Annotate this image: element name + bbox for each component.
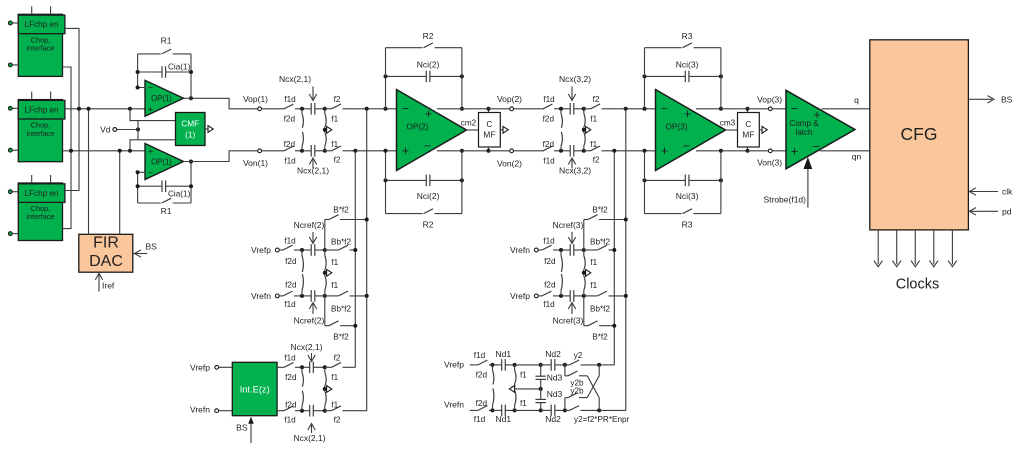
svg-text:−: − — [661, 102, 668, 116]
switch Bb*f2 bottom (ref net 2) — [325, 291, 367, 313]
switch f1 pair + CM node (ref net 2) — [323, 250, 339, 296]
clock ticks block 1 — [32, 6, 51, 14]
wire feedback loop bottom left (2) — [385, 151, 387, 214]
capacitor Ncx(2,1) top (Int.E net) — [300, 362, 327, 374]
switch f1d top (Nd net) — [474, 351, 493, 365]
label Vop(1) — [243, 94, 268, 104]
switch B*f2 bottom (ref net 2) — [325, 296, 356, 342]
svg-text:+: + — [402, 144, 409, 158]
wire q output — [822, 95, 870, 109]
svg-text:Nd2: Nd2 — [545, 349, 561, 359]
svg-text:Vrefp: Vrefp — [444, 359, 464, 369]
wire OP(1) bottom feedback right — [189, 160, 193, 204]
svg-text:+: + — [148, 105, 153, 115]
label Ncx + arrow bottom (stage3) — [559, 158, 591, 176]
switch y2b lower (cross) — [565, 365, 599, 411]
label Ncx(2,1) + arrow top (Int.E net) — [290, 342, 322, 362]
capacitor Nd1 bottom — [491, 405, 517, 424]
svg-text:Cia(1): Cia(1) — [168, 62, 191, 71]
svg-text:Nd1: Nd1 — [496, 414, 512, 424]
C MF output marker (stage 3) — [759, 126, 767, 133]
C MF connections (stage 2) — [487, 107, 491, 153]
capacitor Cia(1) bottom — [138, 180, 191, 198]
svg-text:q: q — [854, 95, 859, 105]
svg-text:f2d: f2d — [285, 257, 297, 266]
wire vertical right (ref to stage3 top) — [624, 109, 628, 411]
capacitor Ncx top (stage2) — [300, 103, 327, 115]
input terminals block 3 — [8, 190, 18, 236]
capacitor Ncref(3) top — [559, 244, 586, 256]
svg-text:Vrefp: Vrefp — [190, 362, 210, 372]
svg-text:OP(1): OP(1) — [151, 157, 172, 166]
svg-text:f1: f1 — [331, 140, 338, 149]
node Vrefn input (ref net 2) — [251, 291, 283, 301]
clock ticks block 2 — [32, 92, 51, 100]
svg-text:Cia(1): Cia(1) — [168, 189, 191, 198]
switch f1d top (stage2) — [284, 95, 302, 109]
svg-text:f1d: f1d — [284, 354, 296, 363]
svg-text:f1: f1 — [331, 114, 338, 123]
clk input arrow — [969, 186, 1013, 196]
CMF(1) output marker — [205, 126, 213, 133]
svg-text:(1): (1) — [185, 130, 195, 140]
wire Von(3) to comparator — [748, 149, 787, 153]
svg-text:Ncref(3): Ncref(3) — [553, 220, 584, 230]
node Vrefp input (Nd net) — [444, 359, 478, 369]
label Vop(2) — [497, 94, 522, 104]
svg-text:f1: f1 — [520, 371, 527, 380]
svg-text:Nci(2): Nci(2) — [417, 60, 440, 70]
svg-text:f2: f2 — [334, 156, 341, 165]
wire Von(2) to stage3 — [489, 149, 545, 153]
switch f1d top (Int.E net) — [277, 354, 302, 368]
svg-text:BS: BS — [1001, 94, 1013, 104]
label Clocks — [896, 277, 940, 293]
switch f1d bottom (stage3) — [543, 146, 561, 166]
svg-text:LFchp en: LFchp en — [24, 189, 59, 198]
capacitor Ncx bottom (stage3) — [559, 145, 586, 157]
svg-text:CFG: CFG — [901, 124, 938, 144]
svg-text:f1: f1 — [590, 258, 597, 267]
label Ncref(3) + arrow top — [553, 220, 584, 244]
switch f1 pair + CM node (stage2) — [323, 109, 339, 151]
svg-text:interface: interface — [27, 129, 55, 138]
svg-text:f2: f2 — [334, 354, 341, 363]
svg-text:B*f2: B*f2 — [333, 206, 349, 215]
switch f2d pair (ref net 2) — [285, 250, 303, 296]
wire feedback loop bottom right (3) — [719, 149, 723, 214]
CMF block C MF (stage 3) — [738, 113, 760, 148]
wire OP(1) bottom feedback left — [136, 170, 146, 203]
switch f1d bottom (ref net 2) — [283, 291, 302, 309]
svg-text:Vd: Vd — [100, 124, 111, 134]
wire bottom row to Nd2 (Nd net) — [515, 408, 543, 412]
wire OP(2) output bottom — [437, 150, 489, 152]
chop interface block 1 (LFchp en / Chop interface) — [18, 14, 65, 76]
wire qn output — [820, 151, 870, 162]
svg-text:Vop(2): Vop(2) — [497, 94, 522, 104]
node cm2 wire — [461, 119, 479, 130]
svg-text:Nd3: Nd3 — [547, 373, 563, 383]
switch f1d bottom (ref net 3) — [542, 291, 561, 309]
svg-text:Ncx(3,2): Ncx(3,2) — [559, 166, 591, 176]
op-amp OP(1) bottom — [145, 144, 184, 180]
node Vrefn input (ref net 3) — [510, 245, 542, 255]
svg-text:Vrefn: Vrefn — [190, 404, 210, 414]
switch B*f2 top (ref net 3) — [584, 206, 626, 250]
label Ncx + arrow top (stage3) — [559, 74, 591, 101]
chop interface block 2 (LFchp en / Chop interface) — [18, 100, 65, 162]
svg-text:MF: MF — [742, 130, 754, 140]
wire feedback loop top left (3) — [644, 48, 646, 109]
svg-text:f2: f2 — [334, 95, 341, 104]
svg-text:f1d: f1d — [284, 157, 296, 166]
capacitor Nd3 upper — [536, 365, 563, 389]
switch B*f2 top (ref net 2) — [325, 206, 367, 250]
capacitor Ncx bottom (stage2) — [300, 145, 327, 157]
svg-text:f2: f2 — [593, 95, 600, 104]
svg-text:Nci(3): Nci(3) — [676, 60, 699, 70]
svg-text:Nci(2): Nci(2) — [417, 191, 440, 201]
wire feedback loop top left (2) — [385, 48, 387, 109]
svg-text:f2d: f2d — [543, 114, 555, 123]
svg-text:f2d: f2d — [284, 114, 296, 123]
svg-text:Vrefn: Vrefn — [510, 245, 530, 255]
clock output arrows — [874, 230, 957, 267]
label Ncx(2,1) + arrow bottom (Int.E net) — [293, 424, 325, 443]
labels y2b — [570, 378, 584, 395]
svg-text:f2d: f2d — [284, 140, 296, 149]
svg-text:−: − — [402, 102, 409, 116]
svg-text:OP(3): OP(3) — [665, 122, 687, 132]
wire block3 bottom output to bottom rail — [63, 151, 72, 229]
svg-text:f2d: f2d — [544, 257, 556, 266]
switch R1 top — [138, 35, 191, 54]
node cm3 wire — [720, 119, 738, 130]
switch y2 bottom — [565, 406, 630, 424]
svg-text:Von(2): Von(2) — [497, 158, 522, 168]
FIR DAC block — [79, 234, 133, 272]
switch f2 bottom (stage3) — [584, 146, 611, 165]
svg-text:C: C — [486, 119, 492, 129]
label Ncref(2) + arrow bottom — [294, 303, 325, 326]
wire vertical left (ref to stage2 bottom) — [353, 151, 357, 367]
svg-text:f1d: f1d — [543, 95, 555, 104]
svg-text:−: − — [813, 139, 820, 153]
label Von(2) — [497, 158, 522, 168]
svg-text:f2d: f2d — [285, 280, 297, 289]
svg-text:−: − — [791, 102, 798, 116]
svg-text:f1d: f1d — [543, 300, 555, 309]
wire feedback loop top right (2) — [460, 48, 464, 111]
svg-text:f1d: f1d — [284, 95, 296, 104]
svg-text:+: + — [661, 144, 668, 158]
wire Vop(3) to comparator — [748, 107, 787, 111]
svg-text:Ncx(2,1): Ncx(2,1) — [293, 433, 325, 443]
wire Vop(2) to stage3 — [489, 107, 545, 111]
switch f2 top (Int.E net) — [325, 354, 356, 368]
node Vrefp input (ref net 3) — [510, 291, 542, 301]
wire OP(2) input bottom — [352, 149, 398, 153]
wire FIR DAC output to bottom rail — [119, 151, 121, 235]
BS output arrow — [968, 94, 1012, 104]
switch R3 bottom — [645, 209, 721, 230]
wire vertical left (ref to stage3 bottom) — [612, 151, 616, 365]
svg-text:−: − — [683, 139, 690, 153]
wire block3 top output to top rail — [65, 109, 79, 191]
svg-text:latch: latch — [796, 128, 813, 137]
svg-text:Von(3): Von(3) — [757, 158, 782, 168]
svg-text:−: − — [148, 168, 153, 178]
wire feedback loop bottom right (2) — [460, 149, 464, 214]
switch f2d pair (stage3) — [543, 109, 563, 151]
wire OP(3) input bottom — [611, 149, 657, 153]
switch f1 pair + CM node (stage3) — [582, 109, 598, 151]
capacitor Nd2 bottom — [541, 405, 567, 424]
svg-text:B*f2: B*f2 — [592, 206, 608, 215]
switch f1d bottom (Nd net) — [474, 406, 493, 424]
svg-text:+: + — [791, 144, 798, 158]
wire CMF(1) sense top — [130, 109, 176, 121]
svg-text:CMF: CMF — [181, 119, 199, 129]
switch f1 pair + CM node (ref net 3) — [582, 250, 598, 296]
CMF block CMF(1) — [176, 113, 206, 146]
svg-text:Bb*f2: Bb*f2 — [590, 304, 610, 313]
wire FIR DAC output to top rail — [88, 109, 90, 235]
wire feedback loop bottom left (3) — [644, 151, 646, 214]
node Vrefn input (Nd net) — [444, 399, 478, 410]
svg-text:B*f2: B*f2 — [333, 332, 349, 341]
svg-text:Ncx(2,1): Ncx(2,1) — [290, 342, 322, 352]
label Ncref(3) + arrow bottom — [553, 303, 584, 326]
svg-text:R1: R1 — [161, 35, 172, 45]
capacitor Nci(2) top — [384, 60, 464, 83]
svg-text:Ncref(2): Ncref(2) — [294, 315, 325, 325]
svg-text:+: + — [425, 107, 432, 121]
svg-text:interface: interface — [27, 212, 55, 221]
switch f2 bottom (Int.E net) — [325, 406, 367, 425]
op-amp OP(1) top — [145, 80, 184, 116]
svg-text:R2: R2 — [423, 31, 434, 41]
input terminals block 1 — [8, 21, 18, 67]
switch f2 top (stage2) — [325, 95, 352, 109]
svg-text:qn: qn — [852, 152, 862, 162]
switch f1d bottom (Int.E net) — [277, 406, 302, 425]
svg-text:f1d: f1d — [543, 157, 555, 166]
svg-text:Bb*f2: Bb*f2 — [331, 304, 351, 313]
switch f2 bottom (stage2) — [325, 146, 352, 165]
wire Vop(1) output — [184, 98, 285, 110]
Strobe(f1d) input arrow — [763, 157, 812, 208]
svg-text:f1d: f1d — [474, 351, 486, 360]
label Ncref(2) + arrow top — [294, 220, 325, 244]
svg-text:Vrefp: Vrefp — [510, 291, 530, 301]
svg-text:Comp &: Comp & — [790, 119, 820, 128]
wire block1 top output to top rail — [65, 28, 79, 108]
svg-text:cm2: cm2 — [461, 119, 477, 128]
svg-text:f1: f1 — [590, 281, 597, 290]
svg-text:f2d: f2d — [476, 371, 488, 380]
wire OP(3) output top — [696, 108, 748, 110]
label Von(3) — [757, 158, 782, 168]
svg-text:B*f2: B*f2 — [592, 332, 608, 341]
svg-text:Vrefn: Vrefn — [251, 291, 271, 301]
node Vrefp input (ref net 2) — [251, 245, 283, 255]
BS input arrow to Int.E(z) — [236, 417, 254, 443]
wire top row to Nd2 (Nd net) — [515, 363, 543, 367]
switch f1d top (ref net 3) — [542, 236, 561, 250]
switch f1d top (stage3) — [543, 95, 561, 109]
svg-text:Iref: Iref — [102, 281, 115, 291]
switch f1d top (ref net 2) — [283, 236, 302, 250]
capacitor Ncref(3) bottom — [559, 290, 586, 302]
svg-text:BS: BS — [146, 242, 158, 252]
clock ticks block 3 — [32, 175, 51, 183]
input terminals block 2 — [8, 106, 18, 152]
capacitor Nd3 lower — [536, 389, 563, 411]
svg-text:C: C — [745, 119, 751, 129]
switch R2 top — [386, 31, 462, 48]
wire OP(1) top feedback right — [189, 54, 193, 100]
wire feedback loop top right (3) — [719, 48, 723, 111]
svg-text:pd: pd — [1002, 206, 1012, 216]
svg-text:−: − — [148, 82, 153, 92]
svg-text:y2=f2*PR*Enpr: y2=f2*PR*Enpr — [574, 415, 630, 424]
label Von(1) — [243, 158, 268, 168]
svg-text:f2d: f2d — [544, 280, 556, 289]
wire Von(1) output — [184, 149, 285, 162]
svg-text:clk: clk — [1002, 186, 1013, 196]
wire OP(1) top feedback left — [136, 54, 146, 90]
C MF output marker (stage 2) — [500, 126, 508, 133]
svg-text:f2: f2 — [593, 156, 600, 165]
svg-text:Strobe(f1d): Strobe(f1d) — [763, 194, 806, 204]
svg-text:DAC: DAC — [89, 253, 123, 270]
BS input arrow to FIR DAC — [134, 242, 158, 258]
svg-text:R2: R2 — [423, 220, 434, 230]
svg-text:Ncref(3): Ncref(3) — [553, 315, 584, 325]
chop interface block 3 (LFchp en / Chop interface) — [18, 183, 65, 241]
wire block1 bottom output to bottom rail — [63, 67, 72, 151]
node Vrefn input (Int.E) — [190, 404, 232, 414]
switch Bb*f2 bottom (ref net 3) — [584, 291, 626, 313]
svg-text:R3: R3 — [682, 220, 693, 230]
svg-text:f1d: f1d — [474, 415, 486, 424]
svg-text:f2: f2 — [334, 415, 341, 424]
svg-text:Nci(3): Nci(3) — [676, 191, 699, 201]
svg-text:f1d: f1d — [543, 236, 555, 245]
capacitor Nd2 top — [541, 349, 567, 371]
svg-text:FIR: FIR — [93, 234, 119, 251]
capacitor Nci(3) top — [643, 60, 723, 83]
svg-text:Ncx(3,2): Ncx(3,2) — [559, 74, 591, 84]
switch R1 bottom — [138, 198, 191, 216]
wire Nd net top row to left vertical — [599, 364, 614, 366]
svg-text:R1: R1 — [161, 206, 172, 216]
svg-text:f2d: f2d — [285, 401, 297, 410]
capacitor Cia(1) top — [138, 62, 191, 78]
wire CMF(1) sense bottom — [130, 140, 176, 151]
wire bottom rail (Vin) — [63, 149, 146, 153]
svg-text:interface: interface — [27, 44, 55, 53]
comparator Comp & latch — [786, 90, 855, 169]
switch f2d pair (Int.E net) — [285, 367, 303, 410]
switch f1 pair + CM node (Int.E net) — [323, 367, 339, 410]
CMF block C MF (stage 2) — [479, 113, 501, 148]
svg-text:Ncx(2,1): Ncx(2,1) — [279, 74, 311, 84]
capacitor Nci(3) bottom — [643, 175, 723, 201]
svg-text:f1: f1 — [331, 401, 338, 410]
svg-text:f1: f1 — [331, 373, 338, 382]
switch Bb*f2 top (ref net 3) — [584, 237, 615, 250]
svg-text:LFchp en: LFchp en — [24, 20, 59, 29]
capacitor Ncref(2) top — [300, 244, 327, 256]
svg-text:Nd2: Nd2 — [545, 414, 561, 424]
svg-text:−: − — [424, 139, 431, 153]
svg-text:y2: y2 — [574, 351, 583, 360]
svg-text:Vrefp: Vrefp — [251, 245, 271, 255]
label Ncx + arrow top (stage2) — [279, 74, 317, 101]
switch Bb*f2 top (ref net 2) — [325, 237, 356, 250]
node Vrefp input (Int.E) — [190, 362, 232, 372]
switch f2 top (stage3) — [584, 95, 611, 109]
svg-text:R3: R3 — [682, 31, 693, 41]
svg-text:Bb*f2: Bb*f2 — [590, 237, 610, 246]
svg-text:Von(1): Von(1) — [243, 158, 268, 168]
wire OP(3) input top — [611, 107, 657, 111]
svg-text:f1d: f1d — [284, 300, 296, 309]
Int.E(z) block — [232, 362, 277, 415]
capacitor Ncref(2) bottom — [300, 290, 327, 302]
svg-text:f2d: f2d — [285, 373, 297, 382]
capacitor Nd1 top — [491, 349, 517, 371]
svg-text:Nd3: Nd3 — [547, 389, 563, 399]
wire vertical right (ref to stage2 top) — [365, 109, 369, 411]
wire OP(2) input top — [352, 107, 398, 111]
switch f2d pair (stage2) — [284, 109, 304, 151]
CFG block — [870, 40, 969, 230]
label Vop(3) — [757, 95, 782, 105]
svg-text:cm3: cm3 — [720, 119, 736, 128]
svg-text:f1: f1 — [331, 258, 338, 267]
svg-text:Vrefn: Vrefn — [444, 399, 464, 409]
svg-text:f1d: f1d — [284, 236, 296, 245]
CM rail + marker (Nd net) — [509, 386, 542, 393]
svg-text:f2d: f2d — [543, 140, 555, 149]
svg-text:BS: BS — [236, 422, 248, 432]
switch B*f2 bottom (ref net 3) — [584, 296, 615, 342]
wire top rail (Vip) — [65, 107, 146, 111]
svg-text:Vop(1): Vop(1) — [243, 94, 268, 104]
switch R2 bottom — [386, 209, 462, 230]
pd input arrow — [969, 206, 1011, 216]
switch f1 pair + CM node (Nd net) — [515, 365, 528, 411]
svg-text:Bb*f2: Bb*f2 — [331, 237, 351, 246]
wire OP(3) output bottom — [696, 150, 748, 152]
svg-text:OP(1): OP(1) — [151, 94, 172, 103]
capacitor Nci(2) bottom — [384, 175, 464, 201]
wire Nd net bottom row to right vertical — [599, 409, 626, 411]
svg-text:f2d: f2d — [476, 399, 488, 408]
svg-text:f1d: f1d — [284, 415, 296, 424]
svg-text:Int.E(z): Int.E(z) — [240, 384, 270, 394]
svg-text:+: + — [148, 146, 153, 156]
label Ncx + arrow bottom (stage2) — [297, 158, 329, 176]
svg-text:+: + — [684, 107, 691, 121]
svg-text:MF: MF — [483, 130, 495, 140]
switch f2d pair (ref net 3) — [544, 250, 562, 296]
svg-text:f1: f1 — [331, 281, 338, 290]
